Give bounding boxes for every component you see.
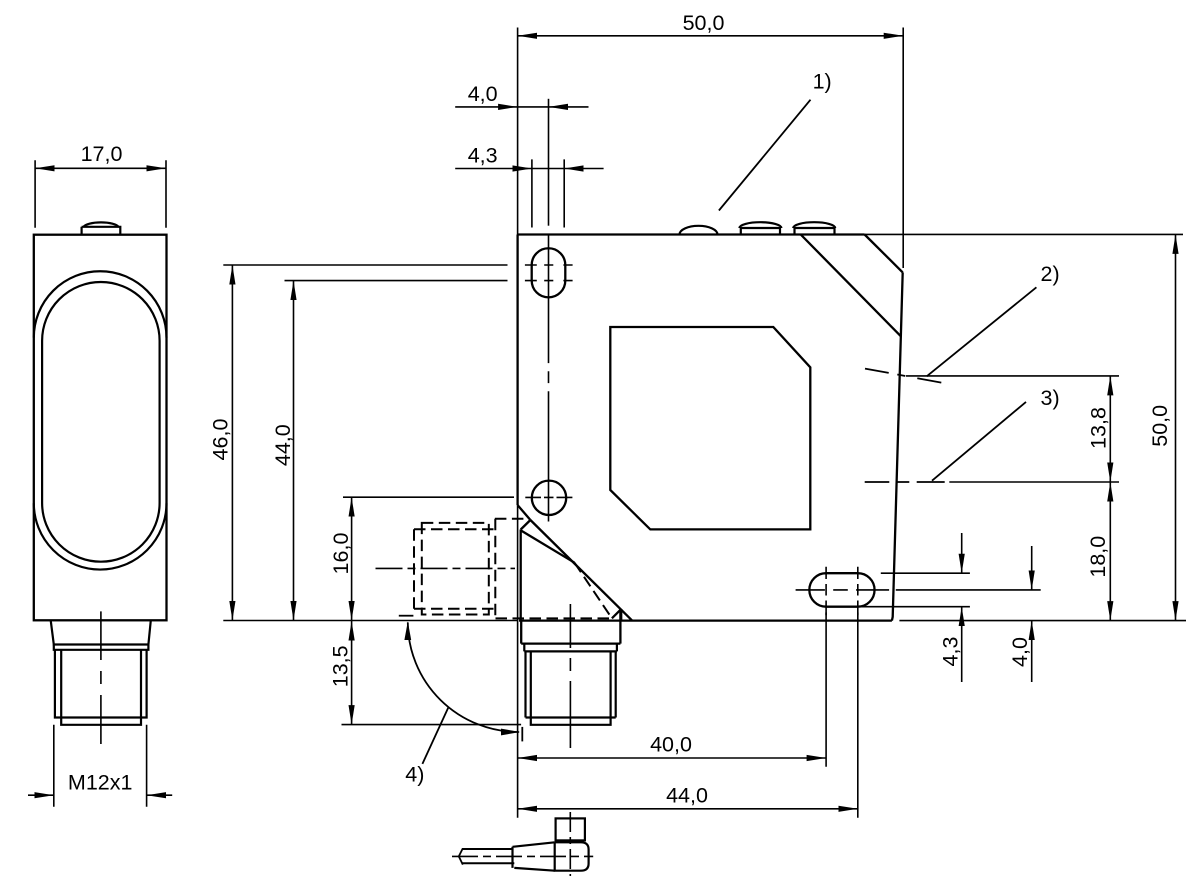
connector ring step [54,645,149,650]
svg-text:M12x1: M12x1 [68,770,133,794]
dim 13,5 ext line bottom [342,724,522,726]
plug body [555,842,589,870]
dim 40,0 ext line right [825,613,827,767]
bottom slot horizontal centerline [796,589,890,591]
dim 44,0 bottom ext line right [857,613,859,818]
dim 40,0 line [518,757,827,759]
svg-text:2): 2) [1041,262,1060,286]
connector nut body [55,650,147,718]
side connector thread cap [531,718,611,725]
svg-text:50,0: 50,0 [683,11,725,35]
top mounting slot left tangent [531,265,533,281]
svg-text:50,0: 50,0 [1148,405,1172,447]
svg-text:16,0: 16,0 [329,533,353,575]
rotation arc 4) [408,622,519,732]
dim 46,0 ext line top [223,264,507,266]
leader 1) [719,100,811,211]
side connector nut body [526,651,616,717]
dim 4,3 top ext lines [532,159,564,227]
dim 44,0 left line [293,281,295,621]
leader 3) [932,402,1026,481]
hidden rail top edge [495,518,530,520]
dim 13,5 line [351,621,353,725]
svg-text:46,0: 46,0 [209,419,233,461]
side connector hex flats [531,651,611,717]
dim 4,3 bottom arrows (outside) [961,533,963,573]
bracket inner square [422,523,489,615]
LED dome on top [680,226,718,235]
lens window outer contour top arc [34,271,167,337]
front face right edge (slightly slanted) [892,272,903,620]
dim M12x1 ext lines [54,725,147,807]
svg-text:4,0: 4,0 [468,82,498,106]
arc right arrowhead [501,729,520,736]
bottom mounting slot tangents [826,573,858,607]
top edge ext right [865,233,1183,235]
dim 50,0 top line [518,35,904,37]
dim 46,0 line [231,265,233,620]
side connector flange [521,609,620,644]
svg-text:1): 1) [813,70,832,94]
dim 16,0 line [351,497,353,620]
svg-text:40,0: 40,0 [650,732,692,756]
prism inner diagonal solid part [521,531,575,563]
side connector centerline [569,604,571,748]
bracket outer square top [414,528,495,530]
dim 4,0 bottom arrows (outside) [1031,546,1033,590]
top right bevel [865,235,903,273]
dim 4,3 top arrows (outside) [455,168,532,170]
top slot upper centermark [525,264,573,266]
baseline ext (bottom edge prolonged left) [223,620,517,622]
prism inner diagonal hidden part [575,563,612,619]
dim 18,0 line [1109,482,1111,621]
bottom edge ext right [899,620,1186,622]
dim 44,0 left ext line top [285,280,508,282]
button 2 dome [739,222,781,228]
cable lines [462,849,514,863]
arc top tick [399,615,414,617]
dim 13,8 ext lines [906,376,1119,482]
central optics window [610,327,810,529]
connector flange [51,620,151,644]
button 3 dome [793,222,835,228]
plug horizontal centerline [452,855,593,857]
dim 50,0 right line [1175,234,1177,620]
leader 2) [927,287,1037,376]
optical axis 3 (dash-dot) [865,481,945,483]
dim 17,0 line [35,167,166,169]
top slot vertical centerline [548,235,550,522]
dim 4,0 top arrows (outside) [455,106,517,108]
cable break mark [459,848,463,864]
svg-text:44,0: 44,0 [666,784,708,808]
bracket axis centerline [376,567,516,569]
dim 44,0 bottom line [518,808,858,810]
svg-text:4,0: 4,0 [1008,637,1032,667]
hidden rail bottom edge [496,617,612,619]
lens window outer contour bottom arc [34,503,167,569]
dim 4,0 top ext line [548,99,550,226]
dim M12x1 arrows (outside) [28,794,54,796]
top slot lower centermark [525,280,573,282]
optical axis 2 (slanted dash-dot) [865,369,941,383]
dim 17,0 ext lines [35,160,166,228]
arc top arrowhead [404,622,411,641]
arc end tick [521,727,523,742]
plug nut [556,818,585,840]
teach button dome [84,222,119,226]
strain relief cone [513,842,555,870]
body top edge [518,233,865,235]
connector hex flats [61,650,141,718]
bracket outer square left [413,529,415,608]
svg-text:13,5: 13,5 [329,645,353,687]
top mounting slot arcs [532,248,566,297]
connector centerline [100,611,102,744]
dim 16,0 ext line top [343,496,514,498]
plug vertical centerline [569,812,571,876]
sensor front body outline [34,235,167,621]
leader 4) [422,708,448,764]
dim 4,3 bottom ext lines [859,573,970,607]
inner glass diagonal at top right [801,235,901,337]
dim 13,8 line [1109,376,1111,482]
dim 4,0 bottom ext line [896,589,1041,591]
svg-text:4,3: 4,3 [468,143,498,167]
svg-text:44,0: 44,0 [271,424,295,466]
bottom slot left centermark [825,567,827,616]
lens window inner contour [42,282,160,562]
prism bottom notch [612,609,621,621]
side connector ring step [524,644,617,652]
connector thread cap [61,718,141,725]
teach button base on top [82,227,121,235]
button 2 base [741,228,780,235]
svg-text:3): 3) [1041,386,1060,410]
svg-text:4,3: 4,3 [938,637,962,667]
top mounting slot right tangent [564,265,566,281]
corner notch lower diagonal [521,520,531,530]
corner notch upper diagonal [518,505,531,520]
lower hole horizontal centermark [525,496,572,498]
svg-text:13,8: 13,8 [1087,407,1111,449]
bottom mounting slot arcs [809,573,874,607]
bracket outer square right [494,519,496,619]
svg-text:18,0: 18,0 [1086,536,1110,578]
ext line below body left edge [517,505,519,818]
body left edge [516,235,518,506]
lower mounting hole [532,481,566,515]
inner lower-left edge [520,530,522,621]
bracket outer square bottom [414,608,495,610]
body bottom edge [519,619,892,621]
prism main diagonal [530,520,632,620]
bottom slot right centermark [857,567,859,616]
button 3 base [795,228,835,235]
svg-text:4): 4) [405,763,424,787]
dim 50,0 top ext lines [518,28,904,269]
svg-text:17,0: 17,0 [81,142,123,166]
